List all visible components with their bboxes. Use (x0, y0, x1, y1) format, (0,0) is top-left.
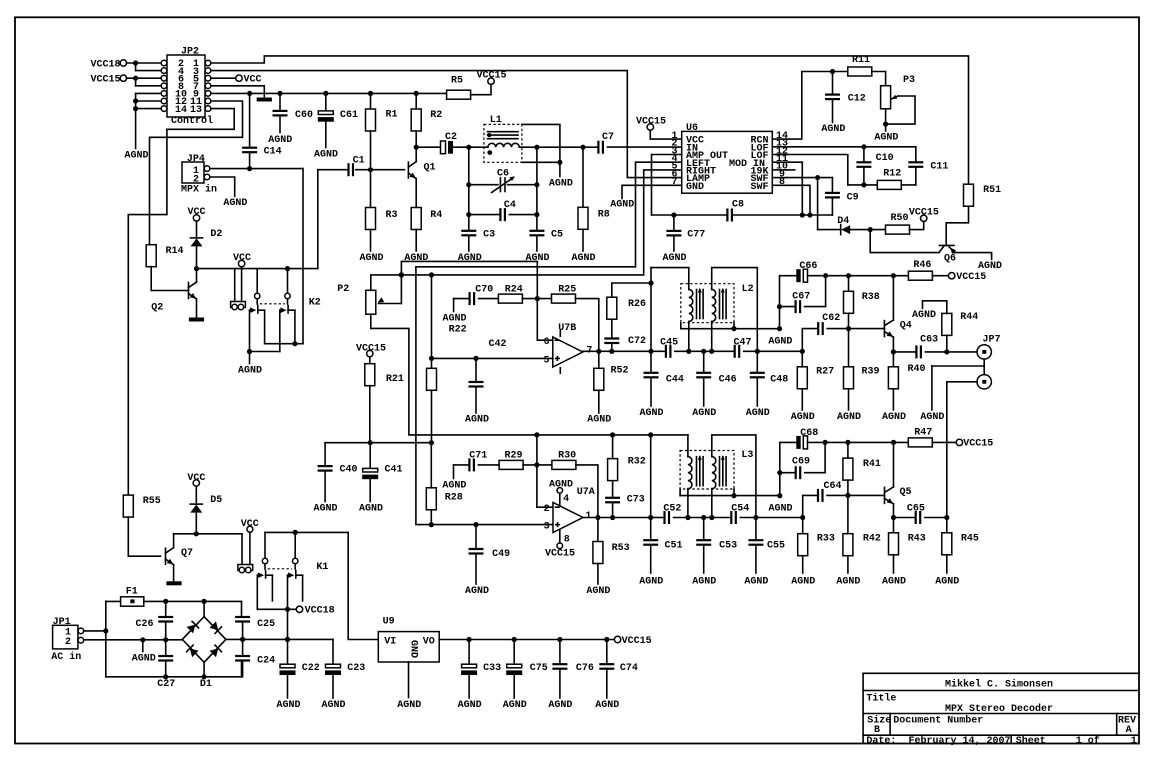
svg-text:AGND: AGND (692, 408, 716, 419)
svg-text:C8: C8 (732, 199, 744, 210)
capacitor C22 polarized (287, 639, 289, 664)
svg-text:JP7: JP7 (983, 335, 1001, 346)
resistor R50 (886, 225, 910, 234)
svg-text:Date:: Date: (866, 736, 896, 747)
svg-text:AGND: AGND (874, 133, 898, 144)
svg-text:R39: R39 (862, 367, 880, 378)
svg-text:AGND: AGND (595, 700, 619, 711)
wire D4 to R50 (851, 229, 886, 231)
wire C8 bus to U6 pin11 MOD IN (787, 162, 803, 215)
resistor R39 (848, 329, 850, 367)
wire L3 primary loop (687, 435, 689, 457)
svg-text:U7A: U7A (577, 487, 595, 498)
svg-text:C52: C52 (663, 503, 681, 514)
svg-text:C27: C27 (157, 679, 175, 690)
svg-text:C76: C76 (576, 663, 594, 674)
fuse F1 (106, 600, 121, 602)
wire U7A pin8 to VCC15 (559, 530, 561, 543)
resistor R44 (942, 313, 952, 335)
wire L2 shield to AGND (680, 323, 682, 329)
resistor R11 (848, 67, 872, 76)
svg-text:R32: R32 (628, 456, 646, 467)
wire Q7 emitter to ground bar (173, 565, 175, 582)
resistor R24 (498, 294, 522, 303)
capacitor C48 (756, 351, 758, 373)
wire L2 secondary loop (712, 268, 758, 352)
svg-text:AGND: AGND (935, 577, 959, 588)
resistor R30 (552, 460, 576, 469)
wire U6 pin9 SWF to C9 and D4 (787, 177, 833, 179)
svg-text:R29: R29 (505, 451, 523, 462)
wire R26 top to L2 node (612, 283, 651, 297)
svg-text:3: 3 (544, 522, 550, 533)
wire R5 to VCC15 (471, 84, 491, 94)
svg-text:C9: C9 (847, 193, 859, 204)
wire K1 to VCC18 (257, 608, 296, 610)
capacitor C72 (611, 343, 613, 351)
capacitor C53 (703, 518, 705, 541)
relay K2 coil (234, 269, 236, 302)
relay K1 coil (241, 534, 243, 565)
svg-text:AGND: AGND (548, 700, 572, 711)
wire U6 pin8 SWF to C8 bus (787, 185, 811, 215)
svg-text:R5: R5 (451, 75, 463, 86)
svg-text:R3: R3 (386, 210, 398, 221)
resistor R40 (892, 352, 894, 367)
resistor R28 (426, 488, 436, 510)
wire Q7 collector rail (173, 534, 175, 548)
wire Q6 collector to AGND (954, 253, 991, 260)
svg-text:C1: C1 (353, 156, 365, 167)
svg-text:D4: D4 (837, 216, 849, 227)
ground bar at JP2 pin7 (257, 98, 272, 102)
svg-text:R14: R14 (166, 246, 184, 257)
power flag VCC15 at R50 (921, 215, 927, 221)
svg-text:C53: C53 (719, 541, 737, 552)
svg-text:C44: C44 (666, 374, 684, 385)
svg-text:7: 7 (671, 177, 677, 188)
wire JP2 pin11 to R14 (150, 101, 243, 245)
resistor R53 (597, 518, 599, 542)
capacitor C25 (241, 616, 243, 618)
svg-text:C55: C55 (767, 541, 785, 552)
wire U7B pin5 row (431, 275, 433, 359)
svg-text:R21: R21 (386, 374, 404, 385)
potentiometer P3 (881, 86, 891, 109)
wire L3 shield to AGND (679, 489, 681, 496)
wire U6 pin5 RIGHT bus to P2 (401, 170, 681, 275)
resistor R52 (598, 351, 600, 368)
ground bar Q7 (166, 581, 181, 585)
wire K1 dashed link (268, 568, 292, 570)
capacitor C40 (324, 443, 326, 466)
wire K2 dashed link (260, 303, 285, 305)
svg-text:AGND: AGND (549, 480, 573, 491)
wire JP2 pin1 to R51 top rail (211, 56, 969, 184)
svg-text:C2: C2 (445, 132, 457, 143)
potentiometer P2 (366, 290, 376, 314)
svg-text:AGND: AGND (882, 412, 906, 423)
wire tank left column (468, 147, 470, 231)
svg-text:F1: F1 (126, 587, 138, 598)
wire U7A pin4 to AGND (559, 494, 561, 505)
svg-text:AGND: AGND (458, 700, 482, 711)
capacitor C70 (453, 299, 455, 312)
svg-text:VCC15: VCC15 (622, 636, 652, 647)
svg-text:R24: R24 (505, 285, 523, 296)
capacitor C45 (651, 350, 666, 352)
svg-text:C64: C64 (824, 481, 842, 492)
svg-text:L3: L3 (741, 450, 753, 461)
svg-text:C10: C10 (876, 153, 894, 164)
wire R24 R25 junction (522, 298, 551, 300)
resistor R29 (499, 460, 523, 469)
svg-text:AGND: AGND (639, 577, 663, 588)
pin stubs U6 right (772, 138, 786, 140)
jack JP7 lower (977, 375, 991, 389)
wire K2 to MPX line (265, 343, 303, 345)
resistor R14 (146, 245, 156, 267)
svg-text:R44: R44 (960, 312, 978, 323)
svg-text:2: 2 (544, 504, 550, 515)
capacitor C54 (730, 511, 732, 524)
wire P3 to AGND (885, 109, 887, 131)
transistor Q4 (883, 321, 885, 337)
power flag VCC at JP2 pin5 (211, 77, 236, 79)
capacitor C10 (863, 147, 865, 163)
capacitor C24 (242, 639, 244, 656)
svg-text:VCC15: VCC15 (909, 208, 939, 219)
resistor R8 (582, 147, 584, 207)
capacitor C61 polarized (325, 93, 327, 111)
svg-text:R51: R51 (983, 185, 1001, 196)
resistor R51 (964, 184, 974, 206)
svg-text:AGND: AGND (549, 179, 573, 190)
svg-text:C46: C46 (719, 374, 737, 385)
svg-text:VCC15: VCC15 (956, 272, 986, 283)
node R8 (580, 145, 585, 150)
svg-text:AGND: AGND (276, 700, 300, 711)
svg-text:AGND: AGND (768, 337, 792, 348)
svg-text:2: 2 (65, 637, 71, 648)
wire JP2 pin9 supply bus to R5 (211, 92, 447, 94)
capacitor C26 (165, 601, 167, 617)
resistor R3 (370, 170, 372, 208)
relay K1 contact 1 (264, 532, 266, 558)
wire K2 riser to C1 (317, 170, 319, 269)
wire JP1 pin2 to bridge left (84, 639, 183, 641)
svg-text:AGND: AGND (821, 124, 845, 135)
capacitor C49 (475, 525, 477, 549)
svg-text:C23: C23 (347, 663, 365, 674)
svg-text:C6: C6 (497, 169, 509, 180)
connector JP2 (167, 55, 205, 117)
svg-text:VCC15: VCC15 (963, 439, 993, 450)
svg-text:C72: C72 (628, 336, 646, 347)
connector JP1 (53, 625, 78, 649)
svg-text:AGND: AGND (397, 700, 421, 711)
svg-text:C25: C25 (257, 619, 275, 630)
svg-text:AGND: AGND (746, 408, 770, 419)
bridge rectifier D1 (182, 617, 226, 663)
op-amp U7B (553, 337, 583, 367)
svg-text:C71: C71 (469, 451, 487, 462)
svg-text:14: 14 (175, 105, 187, 116)
svg-text:AGND: AGND (238, 365, 262, 376)
svg-text:8: 8 (564, 535, 570, 546)
svg-text:AGND: AGND (321, 700, 345, 711)
wire Q2 collector to D2 node (196, 269, 198, 282)
ground AGND AC input (142, 640, 144, 652)
wire between JP7 jacks (983, 359, 985, 375)
svg-text:AGND: AGND (639, 408, 663, 419)
capacitor C65 (894, 517, 916, 519)
svg-text:Document Number: Document Number (893, 714, 983, 726)
svg-text:U9: U9 (383, 616, 395, 627)
svg-text:VCC: VCC (187, 473, 205, 484)
transistor Q2 (188, 283, 190, 299)
diode D4 (818, 229, 841, 231)
power flag VCC15 at R46 (932, 275, 948, 277)
wire R30 to output (576, 465, 598, 518)
capacitor C7 (597, 141, 599, 154)
svg-text:C40: C40 (340, 465, 358, 476)
power flag VCC at K2 (238, 260, 244, 266)
capacitor C27 (165, 640, 167, 656)
capacitor C46 (703, 351, 705, 373)
svg-text:AGND: AGND (791, 412, 815, 423)
power flag VCC at D5 (195, 486, 197, 504)
svg-text:R47: R47 (914, 428, 932, 439)
capacitor C3 (461, 230, 476, 232)
svg-text:AGND: AGND (882, 577, 906, 588)
wire VCC18 node to bridge rail (287, 609, 289, 639)
svg-text:AGND: AGND (223, 198, 247, 209)
relay K2 contact 1 (256, 269, 258, 294)
op-amp U7A (553, 503, 583, 533)
svg-text:C48: C48 (770, 374, 788, 385)
capacitor C11 (915, 147, 917, 163)
svg-text:AGND: AGND (768, 503, 792, 514)
svg-text:B: B (874, 725, 880, 736)
svg-text:AGND: AGND (836, 577, 860, 588)
wire VCC15 to JP2 pins 6,8 (126, 77, 161, 79)
svg-text:C66: C66 (799, 261, 817, 272)
power flag VCC15 at JP2 (120, 75, 126, 81)
wire R55 to Q7 base (128, 517, 160, 556)
svg-text:AGND: AGND (314, 149, 338, 160)
svg-text:R42: R42 (863, 534, 881, 545)
wire R29 R30 junction (523, 464, 552, 466)
svg-text:AC in: AC in (51, 651, 81, 663)
power flag VCC at D2 (196, 221, 198, 238)
svg-text:L2: L2 (742, 284, 754, 295)
svg-text:C4: C4 (504, 200, 516, 211)
svg-text:C62: C62 (822, 313, 840, 324)
capacitor C41 polarized (369, 443, 371, 469)
svg-text:R55: R55 (143, 496, 161, 507)
svg-text:1: 1 (1131, 736, 1137, 747)
wire P2 top to bus node (371, 275, 399, 290)
svg-text:C12: C12 (848, 93, 866, 104)
svg-text:C22: C22 (302, 663, 320, 674)
wire R14 to Q2 base (151, 267, 188, 291)
svg-text:AGND: AGND (132, 653, 156, 664)
wire L2 primary bottom (688, 322, 690, 352)
svg-text:C69: C69 (792, 457, 810, 468)
wire L3 primary bottom (687, 489, 689, 518)
svg-text:R41: R41 (863, 459, 881, 470)
svg-text:C24: C24 (257, 656, 275, 667)
svg-text:R30: R30 (558, 451, 576, 462)
svg-text:C54: C54 (731, 503, 749, 514)
capacitor C75 polarized (513, 640, 515, 665)
svg-text:C51: C51 (665, 541, 683, 552)
capacitor C9 (825, 192, 840, 194)
svg-text:VCC15: VCC15 (545, 549, 575, 560)
svg-text:AGND: AGND (978, 261, 1002, 272)
svg-text:C77: C77 (687, 230, 705, 241)
svg-text:Q1: Q1 (424, 163, 436, 174)
capacitor C14 (249, 93, 251, 147)
wire Q2 emitter to ground bar (196, 299, 198, 318)
capacitor C23 polarized (332, 639, 334, 664)
resistor R42 (847, 495, 849, 533)
power flag VCC18 at K1 (296, 606, 302, 612)
resistor R21 (369, 357, 371, 364)
capacitor C1 (356, 169, 371, 171)
svg-text:R27: R27 (816, 367, 834, 378)
wire top rail F1 to C25 (144, 600, 242, 602)
svg-text:C33: C33 (483, 663, 501, 674)
svg-text:VCC15: VCC15 (476, 70, 506, 81)
wire U6 pin13 LOF to tank top (787, 146, 916, 148)
capacitor C51 (650, 518, 652, 541)
svg-text:AGND: AGND (359, 504, 383, 515)
resistor R1 (370, 93, 372, 109)
svg-text:SWF: SWF (750, 182, 768, 193)
svg-text:Q2: Q2 (151, 302, 163, 313)
svg-text:AGND: AGND (465, 586, 489, 597)
node R1 R3 C1 Q1 base (368, 167, 373, 172)
transistor Q5 (884, 487, 886, 503)
wire R44 top to AGND (923, 301, 947, 314)
svg-text:AGND: AGND (268, 135, 292, 146)
wire bottom rail (106, 676, 242, 678)
wire Q4 collector to R46 bus (892, 276, 894, 320)
svg-text:R25: R25 (558, 285, 576, 296)
svg-text:R8: R8 (598, 210, 610, 221)
wire C8 bus (652, 214, 728, 216)
svg-text:8: 8 (779, 177, 785, 188)
capacitor C71 (453, 465, 455, 479)
wire Q6 base from R51 (946, 207, 968, 245)
svg-text:R33: R33 (817, 534, 835, 545)
svg-text:AGND: AGND (920, 412, 944, 423)
resistor R26 (611, 319, 613, 338)
svg-text:R46: R46 (913, 260, 931, 271)
svg-text:Q7: Q7 (181, 548, 193, 559)
wire bus A to U7B pin6 feed (401, 261, 552, 340)
wire JP4 pin2 to AGND (210, 177, 235, 197)
capacitor C60 (279, 93, 281, 111)
power flag VCC15 at R47 (932, 441, 956, 443)
resistor R32 (612, 481, 614, 498)
svg-text:C14: C14 (264, 147, 282, 158)
svg-text:K2: K2 (309, 298, 321, 309)
svg-text:AGND: AGND (124, 151, 148, 162)
wire JP2 pin3 to U6 pin6 LAMP (211, 71, 682, 178)
capacitor C66 polarized (796, 269, 800, 282)
wire K2 to AGND (250, 351, 280, 353)
svg-text:VCC18: VCC18 (90, 59, 120, 70)
diode D5 (195, 512, 197, 533)
wire U6 pin4 LEFT bus to U7A pin3 (416, 162, 682, 524)
svg-text:February 14, 2007: February 14, 2007 (909, 735, 1011, 747)
resistor R38 (848, 276, 850, 292)
resistor R47 (908, 438, 932, 447)
svg-text:R2: R2 (430, 110, 442, 121)
svg-text:VCC: VCC (244, 75, 262, 86)
wire JP2 pins 10,12,14 to AGND (136, 92, 162, 94)
svg-text:R11: R11 (852, 55, 870, 66)
svg-text:K1: K1 (316, 562, 328, 573)
svg-text:Mikkel C. Simonsen: Mikkel C. Simonsen (945, 679, 1053, 691)
svg-text:VI: VI (384, 636, 396, 647)
svg-text:C63: C63 (920, 335, 938, 346)
regulator U9 (378, 632, 439, 662)
svg-text:C26: C26 (136, 619, 154, 630)
svg-text:AGND: AGND (744, 577, 768, 588)
svg-text:C3: C3 (483, 230, 495, 241)
diode D2 (196, 246, 198, 268)
resistor R43 (893, 518, 895, 533)
capacitor C33 polarized (468, 640, 470, 665)
resistor R55 (123, 495, 133, 517)
wire L1 to C7 (519, 146, 598, 148)
wire U6 pin14 RCN to R11 (787, 72, 848, 140)
svg-text:P3: P3 (903, 75, 915, 86)
svg-text:Q6: Q6 (944, 253, 956, 264)
svg-text:VCC: VCC (241, 519, 259, 530)
capacitor C64 (803, 495, 818, 517)
wire K1 pivots to U9 (265, 531, 348, 533)
svg-text:AGND: AGND (458, 253, 482, 264)
svg-text:Q4: Q4 (900, 321, 912, 332)
svg-text:AGND: AGND (692, 577, 716, 588)
svg-text:C73: C73 (627, 495, 645, 506)
svg-text:AGND: AGND (313, 504, 337, 515)
capacitor C67 (780, 306, 796, 308)
capacitor C12 (832, 72, 834, 95)
svg-text:C61: C61 (340, 110, 358, 121)
wire Q1 emitter to R4 (415, 179, 417, 208)
svg-text:4: 4 (563, 494, 569, 505)
resistor R27 (797, 367, 807, 389)
title block (863, 672, 1139, 674)
svg-text:D1: D1 (200, 679, 212, 690)
svg-text:C45: C45 (660, 337, 678, 348)
svg-text:VCC: VCC (233, 253, 251, 264)
svg-text:AGND: AGND (610, 200, 634, 211)
svg-text:AGND: AGND (837, 412, 861, 423)
svg-text:1: 1 (585, 511, 591, 522)
power flag VCC18 at JP2 (120, 60, 126, 66)
wire Q5 emitter node (893, 504, 895, 518)
power flag VCC at K1 (247, 526, 253, 532)
svg-text:1 of: 1 of (1076, 735, 1100, 747)
svg-text:Sheet: Sheet (1016, 735, 1046, 747)
